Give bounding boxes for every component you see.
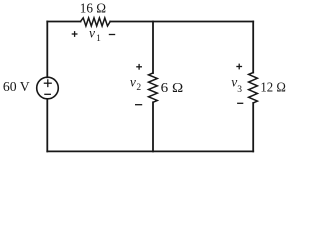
polarity plus mark of v1: [72, 31, 78, 37]
polarity plus mark of v3: [236, 64, 242, 70]
voltage source minus terminal mark: [45, 93, 50, 95]
polarity minus mark of v3: [237, 102, 243, 104]
wire right vertical upper: [252, 22, 254, 73]
node voltage label v1: [89, 26, 101, 45]
polarity minus mark of v1: [109, 34, 115, 36]
svg-text:1: 1: [96, 34, 101, 44]
wire middle vertical upper: [152, 22, 154, 74]
polarity plus mark of v2: [136, 64, 142, 70]
node voltage label v3: [231, 75, 242, 95]
voltage source 60 V (circle symbol): [37, 77, 59, 99]
svg-text:2: 2: [136, 83, 141, 93]
voltage source plus terminal mark: [44, 80, 51, 87]
wire left vertical lower (source to bottom corner): [46, 99, 48, 151]
svg-text:6 Ω: 6 Ω: [161, 81, 184, 96]
wire top segment right (R 16 to top-right corner): [110, 21, 253, 23]
polarity minus mark of v2: [135, 104, 142, 106]
wire right vertical lower: [252, 103, 254, 151]
svg-text:16 Ω: 16 Ω: [80, 2, 106, 17]
resistor 6 ohm (vertical zigzag): [149, 73, 158, 102]
resistor 12 ohm (vertical zigzag): [249, 73, 258, 104]
wire bottom (full width): [47, 150, 253, 152]
resistor 16 ohm (horizontal zigzag): [81, 18, 111, 26]
wire top segment left (source to R 16): [47, 21, 80, 23]
svg-text:60 V: 60 V: [3, 80, 30, 95]
wire middle vertical lower: [152, 102, 154, 151]
svg-text:v: v: [130, 74, 136, 89]
wire left vertical upper (top corner to source): [46, 22, 48, 78]
svg-text:3: 3: [237, 85, 242, 95]
svg-text:v: v: [89, 26, 95, 41]
svg-text:12 Ω: 12 Ω: [260, 81, 286, 96]
node voltage label v2: [130, 74, 142, 93]
